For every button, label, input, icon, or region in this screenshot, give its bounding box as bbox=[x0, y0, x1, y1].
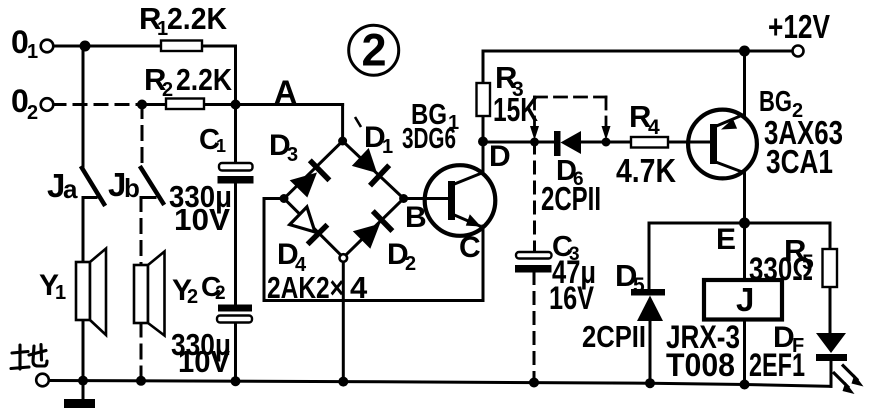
svg-text:1: 1 bbox=[216, 136, 226, 156]
svg-text:b: b bbox=[124, 173, 140, 203]
svg-text:3CA1: 3CA1 bbox=[766, 143, 833, 180]
svg-text:2: 2 bbox=[215, 283, 226, 304]
svg-text:3DG6: 3DG6 bbox=[402, 123, 456, 155]
svg-text:2.2K: 2.2K bbox=[167, 1, 228, 36]
svg-text:a: a bbox=[63, 174, 78, 204]
svg-text:2: 2 bbox=[405, 253, 416, 275]
svg-text:C: C bbox=[459, 231, 481, 264]
svg-text:2EF1: 2EF1 bbox=[749, 347, 805, 383]
svg-text:2CPII: 2CPII bbox=[582, 319, 646, 354]
svg-text:2AK2×: 2AK2× bbox=[267, 270, 344, 305]
svg-text:1: 1 bbox=[382, 136, 393, 158]
svg-text:10V: 10V bbox=[174, 202, 230, 237]
svg-text:15K: 15K bbox=[493, 91, 538, 128]
svg-text:J: J bbox=[736, 281, 754, 318]
svg-text:B: B bbox=[405, 201, 427, 234]
svg-text:T008: T008 bbox=[666, 347, 735, 383]
svg-text:4.7K: 4.7K bbox=[616, 152, 676, 189]
svg-text:4: 4 bbox=[350, 270, 368, 305]
svg-text:+12V: +12V bbox=[768, 8, 830, 45]
svg-text:1: 1 bbox=[27, 41, 38, 63]
svg-text:2: 2 bbox=[27, 102, 38, 124]
svg-text:A: A bbox=[274, 74, 297, 110]
svg-text:D: D bbox=[489, 140, 511, 173]
svg-text:2: 2 bbox=[187, 286, 198, 308]
svg-text:16V: 16V bbox=[549, 280, 595, 316]
svg-text:2.2K: 2.2K bbox=[176, 62, 233, 97]
svg-text:5: 5 bbox=[633, 274, 645, 297]
svg-text:2CPII: 2CPII bbox=[541, 180, 601, 217]
svg-text:E: E bbox=[716, 223, 736, 256]
svg-text:2: 2 bbox=[361, 25, 386, 76]
svg-text:3: 3 bbox=[287, 144, 298, 166]
svg-text:1: 1 bbox=[55, 282, 66, 304]
svg-text:2: 2 bbox=[162, 79, 173, 101]
svg-text:330Ω: 330Ω bbox=[749, 251, 813, 287]
svg-text:10V: 10V bbox=[178, 344, 230, 379]
svg-text:4: 4 bbox=[648, 116, 660, 139]
